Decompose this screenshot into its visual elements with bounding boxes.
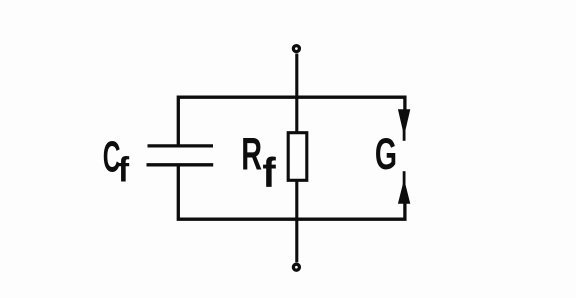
wire top rail with left corner and right corner bbox=[178, 97, 405, 147]
capacitor Cf bottom plate bbox=[147, 163, 214, 166]
spark gap G upper electrode arrow pointing down bbox=[398, 109, 410, 141]
spark gap G lower electrode arrow pointing up bbox=[398, 171, 410, 204]
label Rf bbox=[241, 130, 276, 196]
label G bbox=[375, 129, 397, 179]
label Cf bbox=[103, 132, 130, 190]
svg-text:G: G bbox=[375, 129, 397, 179]
resistor Rf body bbox=[288, 133, 307, 181]
bottom terminal bbox=[293, 264, 299, 270]
wire from top terminal down to resistor Rf bbox=[295, 54, 298, 133]
svg-text:R: R bbox=[241, 130, 262, 180]
wire bottom rail with left riser and right riser bbox=[178, 164, 405, 219]
wire from resistor Rf bottom through bottom rail to bottom terminal bbox=[295, 182, 298, 263]
svg-text:f: f bbox=[118, 151, 130, 190]
svg-text:f: f bbox=[262, 149, 276, 196]
top terminal bbox=[293, 46, 299, 52]
capacitor Cf top plate bbox=[148, 144, 214, 147]
